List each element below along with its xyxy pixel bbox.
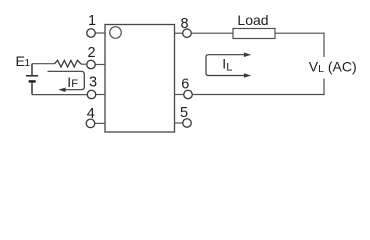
IC U1 body: [105, 25, 175, 133]
IC pin-1 dimple: [110, 27, 122, 39]
pin 5: [175, 105, 192, 127]
pin 8: [175, 16, 192, 37]
svg-text:4: 4: [87, 106, 95, 122]
label VL (AC): [309, 59, 357, 75]
wire battery bottom to pin 3: [32, 94, 87, 96]
pin 3: [87, 75, 105, 99]
resistor (input series): [55, 60, 82, 67]
pin 6: [175, 76, 193, 98]
label E1: [16, 53, 31, 69]
wire battery top to resistor: [32, 63, 55, 65]
pin 4: [86, 106, 105, 128]
pin 1: [87, 13, 105, 37]
svg-text:Load: Load: [237, 12, 268, 28]
svg-text:VL (AC): VL (AC): [309, 59, 357, 75]
pin 2: [87, 45, 105, 69]
svg-text:1: 1: [88, 13, 96, 29]
label IF: [67, 74, 78, 90]
wire right vertical upper: [323, 33, 325, 57]
svg-text:8: 8: [180, 16, 188, 32]
svg-text:5: 5: [180, 105, 188, 121]
svg-text:2: 2: [87, 45, 95, 61]
wire resistor to pin 2: [81, 63, 87, 65]
wire load to top-right corner: [275, 32, 324, 34]
wire bottom-right corner to pin 6: [192, 94, 325, 96]
svg-text:6: 6: [181, 76, 189, 92]
label Load: [237, 12, 268, 28]
wire right vertical lower: [323, 79, 325, 95]
current arrow IL (AC load current): [206, 52, 251, 77]
svg-text:3: 3: [89, 75, 97, 91]
current arrow IF: [48, 71, 85, 92]
load resistor (box): [233, 29, 275, 39]
battery E1: [26, 64, 38, 95]
label IL: [222, 55, 232, 73]
wire pin 8 to load: [191, 32, 233, 34]
